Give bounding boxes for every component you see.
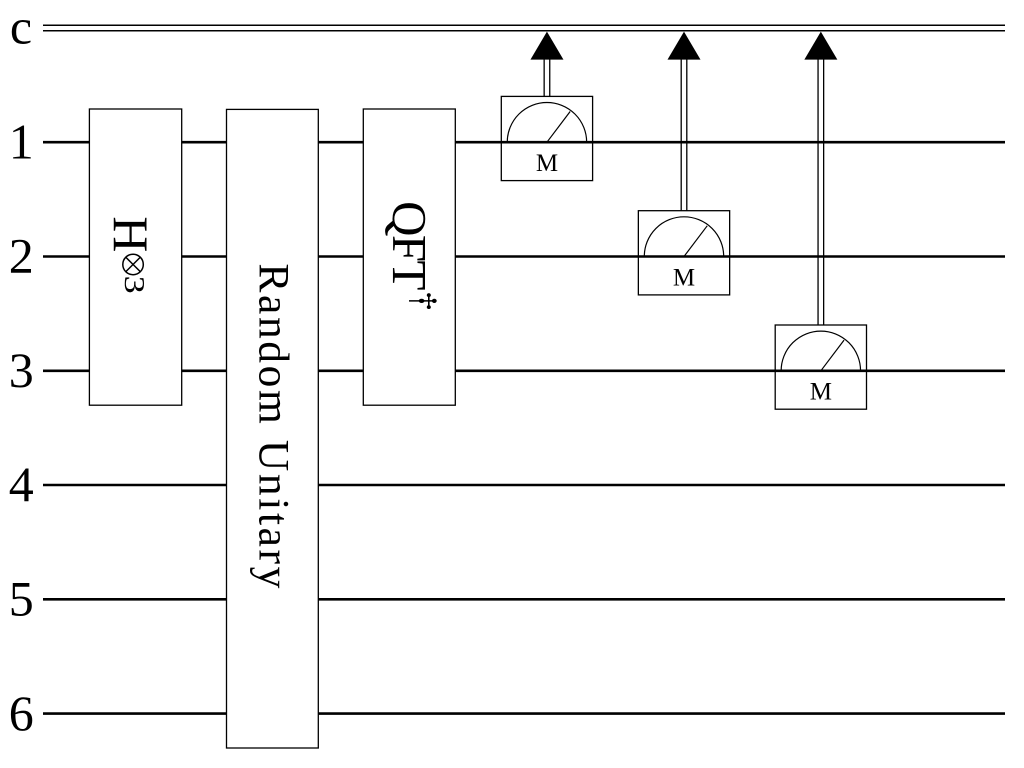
svg-text:Random Unitary: Random Unitary [250, 263, 298, 588]
M3 classical double line [817, 59, 819, 325]
svg-text:M: M [810, 379, 832, 406]
svg-text:M: M [673, 264, 695, 291]
M2 box [638, 211, 729, 295]
gate H tensor 3 label [103, 216, 159, 293]
M2 meter arc [644, 217, 723, 257]
svg-text:1: 1 [9, 113, 34, 169]
M2 needle [684, 226, 707, 257]
measurement M1 on wire q1 [501, 32, 592, 181]
M1 box [501, 96, 592, 180]
wire q2 [43, 255, 1005, 258]
wire q5 [43, 598, 1005, 601]
M1 needle [547, 112, 570, 143]
svg-text:3: 3 [118, 276, 150, 294]
svg-text:M: M [536, 150, 558, 177]
M3 arrowhead [804, 32, 837, 60]
M2 arrowhead [668, 32, 701, 60]
svg-text:5: 5 [9, 571, 34, 627]
gate QFT dagger box [363, 109, 455, 405]
svg-text:4: 4 [9, 456, 34, 512]
M3 meter arc [781, 331, 860, 371]
M3 needle [821, 340, 844, 371]
svg-text:2: 2 [9, 228, 34, 284]
svg-text:c: c [10, 0, 32, 55]
classical wire c (double line) [43, 25, 1005, 31]
M2 classical double line [680, 59, 682, 210]
svg-text:H: H [103, 216, 159, 252]
M1 arrowhead [530, 32, 563, 60]
wire q4 [43, 484, 1005, 487]
svg-text:QFT: QFT [382, 201, 437, 290]
dagger superscript (rotated CM-style glyph) [409, 293, 437, 309]
measurement M3 on wire q3 [775, 32, 866, 410]
wire q1 [43, 141, 1005, 144]
M1 classical double line [543, 59, 545, 96]
M3 box [775, 325, 866, 409]
wire q6 [43, 712, 1005, 715]
gate Random Unitary box [227, 109, 319, 748]
wire q3 [43, 369, 1005, 372]
gate H tensor 3 box [89, 109, 181, 405]
measurement M2 on wire q2 [638, 32, 729, 295]
svg-text:6: 6 [9, 685, 34, 741]
M1 meter arc [507, 102, 586, 142]
svg-text:3: 3 [9, 342, 34, 398]
